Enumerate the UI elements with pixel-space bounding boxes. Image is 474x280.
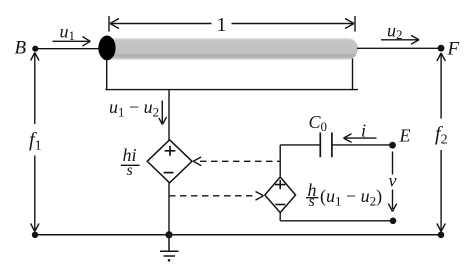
arrow u1-u2 (down): [159, 101, 167, 125]
terminal ellipse: [98, 36, 115, 61]
ground: [160, 235, 179, 256]
svg-text:u1 − u2: u1 − u2: [109, 97, 159, 120]
node bottom middle: [165, 231, 172, 238]
dependent source U2 (h/s (u1-u2)): [265, 177, 296, 213]
wire capacitor to node E: [332, 144, 390, 146]
dashed control line to U2: [169, 192, 264, 201]
dimension line "1": [109, 16, 355, 32]
capacitor C0: [320, 132, 332, 157]
wire bar to F: [357, 47, 439, 49]
node E: [389, 142, 396, 149]
wire corner to capacitor: [280, 144, 320, 146]
svg-text:v: v: [389, 171, 397, 191]
svg-text:i: i: [361, 121, 366, 141]
svg-text:s: s: [309, 193, 315, 210]
arrow f1 (double): [31, 53, 39, 232]
node below E: [390, 218, 397, 225]
node bottom right: [438, 232, 445, 239]
svg-text:s: s: [127, 162, 133, 179]
arrow u2: [381, 35, 419, 44]
dashed control line to U1: [193, 157, 280, 166]
svg-text:E: E: [399, 125, 411, 145]
wire: left vertical under bar: [106, 58, 108, 90]
wire: vertical to source U1: [168, 90, 170, 141]
ground bus wire: [35, 234, 441, 236]
wire source U1 to bus: [168, 183, 170, 235]
arrow v: [388, 152, 396, 212]
node B: [32, 46, 38, 52]
wire: right vertical under bar: [352, 59, 354, 91]
arrow f2 (double): [437, 53, 445, 232]
node bottom left: [32, 232, 38, 238]
arrow i: [344, 134, 377, 143]
svg-text:1: 1: [217, 14, 227, 36]
wire B to bar: [37, 48, 100, 50]
svg-text:F: F: [447, 39, 460, 60]
wire: horizontal under bar: [105, 89, 358, 91]
svg-text:B: B: [15, 38, 27, 59]
arrow u1: [53, 37, 91, 46]
wire source U2 to node below E: [279, 213, 281, 221]
node F: [438, 45, 445, 52]
dependent source U1 (hi/s): [147, 140, 192, 183]
wire corner to source U2 top: [279, 145, 281, 178]
